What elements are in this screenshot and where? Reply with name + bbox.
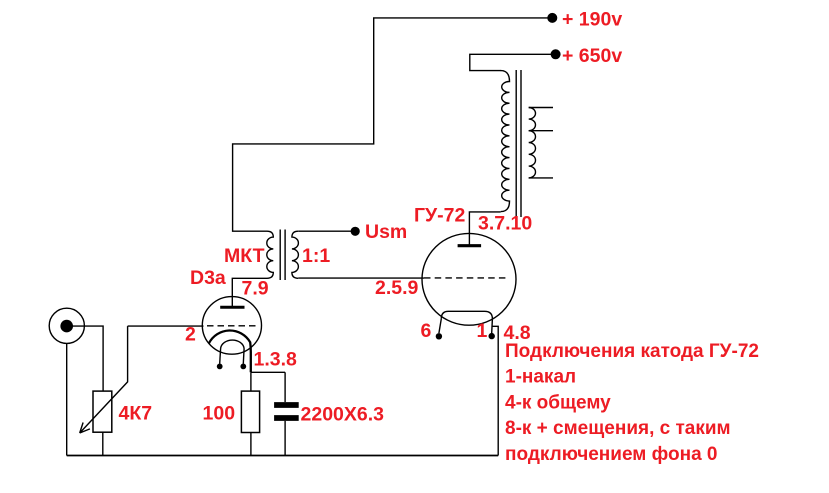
wire MKT secondary bottom to GU-72 grid bbox=[298, 277, 424, 279]
wire D3a cathode junction bbox=[251, 371, 285, 373]
wire jack ground bbox=[66, 343, 68, 455]
wire to resistor 100 top bbox=[250, 372, 252, 391]
svg-text:МКТ: МКТ bbox=[224, 245, 265, 267]
transformer T2 core bbox=[516, 70, 521, 217]
GU-72 grid (dashed) bbox=[424, 277, 510, 279]
ground rail wire bbox=[67, 455, 499, 457]
svg-text:2: 2 bbox=[185, 324, 196, 346]
tube D3a envelope bbox=[202, 297, 261, 355]
node +650v bbox=[551, 50, 560, 59]
wire T2 primary bottom to GU-72 anode bbox=[469, 212, 500, 246]
D3a heater lead right bbox=[242, 349, 245, 364]
svg-text:7.9: 7.9 bbox=[242, 278, 269, 300]
svg-text:1.3.8: 1.3.8 bbox=[254, 349, 298, 371]
svg-text:D3a: D3a bbox=[190, 267, 226, 289]
node heater left bbox=[217, 364, 223, 370]
node heater right bbox=[240, 364, 246, 370]
transformer T2 secondary winding bbox=[529, 108, 536, 178]
D3a heater bbox=[221, 340, 245, 348]
GU-72 cathode bbox=[441, 311, 492, 319]
svg-text:2.5.9: 2.5.9 bbox=[375, 277, 419, 299]
svg-text:1: 1 bbox=[477, 320, 488, 342]
svg-text:подключением фона 0: подключением фона 0 bbox=[505, 444, 717, 465]
potentiometer 4K7 body bbox=[93, 391, 112, 432]
wire pot bottom to rail bbox=[102, 432, 104, 455]
wire T1 primary bottom to D3a anode bbox=[232, 278, 267, 307]
svg-text:100: 100 bbox=[203, 403, 236, 425]
wire pin 4.8 to ground rail bbox=[492, 326, 498, 455]
svg-text:+ 650v: + 650v bbox=[562, 45, 622, 67]
input jack J1 pin bbox=[60, 320, 73, 333]
svg-text:+ 190v: + 190v bbox=[562, 9, 622, 31]
node +190v bbox=[548, 14, 557, 23]
svg-text:4К7: 4К7 bbox=[119, 403, 153, 425]
svg-text:Usm: Usm bbox=[365, 221, 407, 243]
svg-text:ГУ-72: ГУ-72 bbox=[414, 205, 466, 227]
GU-72 cathode lead pin 6 bbox=[439, 319, 441, 334]
D3a cathode bbox=[209, 331, 251, 373]
transformer T1 MKT primary winding bbox=[267, 231, 274, 278]
resistor 100 body bbox=[241, 391, 259, 432]
wire +190v rail to MKT primary top bbox=[233, 18, 552, 231]
input jack J1 outer bbox=[49, 308, 84, 343]
svg-text:3.7.10: 3.7.10 bbox=[478, 213, 532, 235]
wire capacitor top lead bbox=[284, 372, 286, 402]
svg-text:6: 6 bbox=[421, 320, 432, 342]
svg-text:4-к общему: 4-к общему bbox=[505, 392, 611, 413]
tube GU-72 envelope bbox=[422, 233, 516, 325]
wire pot wiper to D3a grid bbox=[128, 325, 204, 327]
transformer T1 core bbox=[280, 230, 285, 281]
GU-72 anode bar bbox=[458, 244, 482, 247]
svg-text:8-к + смещения, с таким: 8-к + смещения, с таким bbox=[505, 418, 731, 439]
wire +650v to output transformer primary top bbox=[470, 54, 556, 70]
wire T1 secondary top to Usm bbox=[298, 230, 351, 232]
transformer T1 secondary winding bbox=[292, 231, 299, 278]
D3a grid (dashed) bbox=[207, 325, 258, 327]
D3a heater lead left bbox=[219, 349, 222, 364]
svg-text:1:1: 1:1 bbox=[302, 245, 330, 267]
T2 secondary tap bottom bbox=[529, 177, 553, 179]
capacitor C1 bottom plate bbox=[274, 415, 299, 421]
potentiometer 4K7 wiper arrow bbox=[80, 326, 128, 433]
svg-text:2200Х6.3: 2200Х6.3 bbox=[301, 404, 385, 426]
node pin 6 bbox=[436, 333, 442, 339]
svg-text:1-накал: 1-накал bbox=[505, 367, 576, 388]
wire jack to pot top bbox=[67, 326, 103, 391]
capacitor C1 top plate bbox=[274, 402, 299, 408]
wire resistor 100 bottom to rail bbox=[250, 433, 252, 456]
T2 secondary tap middle bbox=[529, 130, 553, 132]
T2 secondary tap top bbox=[529, 107, 553, 109]
transformer T2 primary winding bbox=[501, 71, 510, 212]
svg-text:Подключения катода ГУ-72: Подключения катода ГУ-72 bbox=[505, 341, 759, 362]
node Usm bbox=[351, 227, 359, 235]
D3a anode bar bbox=[220, 306, 244, 309]
wire capacitor bottom lead bbox=[284, 421, 286, 456]
GU-72 cathode lead pin 1 bbox=[491, 319, 494, 333]
node pin 1 bbox=[489, 333, 495, 339]
